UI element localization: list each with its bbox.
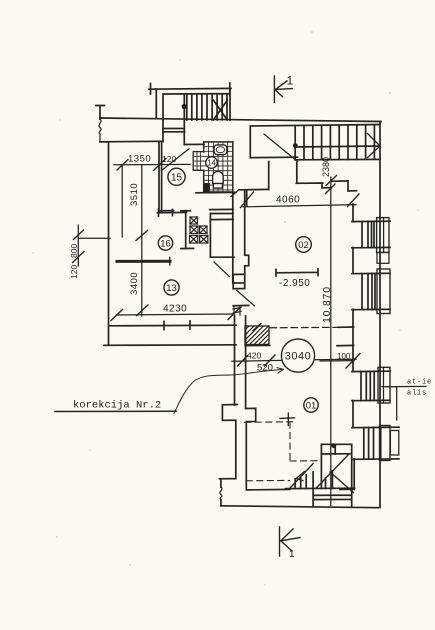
window W1 (352, 218, 390, 253)
wall center vertical double (233, 190, 249, 283)
left outer wall with break (96, 106, 105, 120)
stair base line (286, 487, 355, 489)
corridor verticals down (235, 316, 246, 409)
wall break squiggle (99, 119, 101, 142)
counter wall top (160, 209, 233, 210)
ticks on vertical dim (280, 176, 337, 426)
wall segment to bathroom (184, 143, 204, 145)
wall bottom room15 (158, 209, 187, 216)
room label 16 (158, 236, 172, 250)
kitchen counter rect (210, 214, 234, 258)
mid landing line (295, 146, 380, 147)
dashed layout lines room 01 (245, 422, 322, 481)
dim line 4060 (243, 205, 356, 207)
svg-text:120: 120 (162, 154, 176, 164)
inner wall segments (353, 204, 354, 489)
svg-text:420: 420 (247, 351, 261, 361)
stair walk diagonal (264, 134, 298, 162)
svg-text:4230: 4230 (163, 304, 187, 315)
bottom outer wall (221, 506, 378, 508)
tick on dashed (253, 324, 261, 331)
long north wall (100, 118, 381, 122)
svg-text:-2.950: -2.950 (279, 278, 310, 289)
wall below window4 (340, 488, 354, 490)
partition wall thick (117, 260, 170, 263)
dim ticks 4060 (241, 192, 360, 208)
dim line 3040 row (232, 359, 356, 361)
stair block walls (250, 125, 380, 158)
room label 13 (164, 280, 179, 295)
toilet (213, 171, 224, 183)
landing double lines (163, 129, 185, 132)
stair diagonals (290, 454, 354, 493)
dashed reference line (270, 326, 338, 329)
svg-text:520: 520 (257, 363, 273, 374)
svg-text:02: 02 (298, 240, 309, 251)
washbasin (214, 145, 227, 155)
svg-text:alis: alis (407, 390, 427, 398)
kitchen door swing (214, 262, 229, 277)
room label 01 (304, 398, 318, 412)
dim line 4230 (117, 314, 234, 315)
south wall outer (104, 344, 236, 347)
svg-text:16: 16 (160, 239, 171, 250)
dim ticks 4230 (111, 309, 239, 321)
step wall right of corridor (246, 408, 290, 490)
level mark -2.950 (276, 269, 318, 276)
section mark bottom (280, 527, 301, 556)
hatched pier (245, 326, 270, 346)
dim vertical 3510 (121, 165, 123, 237)
svg-text:120: 120 (69, 265, 79, 279)
counter left wall (181, 211, 194, 249)
stair cut cross (213, 100, 227, 120)
svg-text:4060: 4060 (276, 195, 300, 206)
pier box W1-W2 (377, 253, 389, 264)
svg-text:3400: 3400 (129, 272, 140, 295)
svg-text:1: 1 (287, 74, 294, 88)
newel post dot (182, 104, 187, 109)
wall left of room02 top (240, 189, 269, 206)
wall bottom piece (233, 273, 245, 275)
wall verticals below stair (163, 120, 184, 145)
svg-text:at-ie: at-ie (407, 379, 432, 387)
south wall inner (110, 321, 236, 330)
dim vertical 3400 chain (141, 165, 143, 316)
scan specks (32, 31, 418, 586)
korekcija underline (55, 410, 176, 412)
door jamb hatch (233, 306, 241, 315)
stair bottom right part (295, 158, 380, 160)
room label 02 (296, 237, 312, 253)
tile grid (204, 142, 233, 192)
svg-text:3510: 3510 (129, 183, 140, 206)
svg-text:01: 01 (306, 401, 317, 412)
svg-text:1350: 1350 (128, 154, 151, 165)
dim tick (117, 159, 166, 171)
stair chevron (368, 134, 381, 158)
svg-text:10.870: 10.870 (321, 286, 333, 323)
niche ticks (337, 327, 354, 346)
wall y141.5 (100, 140, 161, 143)
door jamb tick (231, 190, 239, 197)
door jamb solid (204, 183, 210, 192)
window W4 (352, 426, 399, 461)
leader to note text (382, 386, 426, 420)
wall below bathroom (196, 191, 236, 193)
dim 100 line (320, 360, 354, 362)
svg-text:2380: 2380 (321, 157, 331, 177)
dim 120x800 line (78, 225, 110, 266)
duct niche (233, 275, 245, 289)
room label 14 (206, 157, 218, 169)
window W3 (352, 367, 390, 403)
outer wall long vertical (379, 122, 381, 508)
landing walls below (269, 162, 357, 192)
stair treads bottom (295, 471, 332, 488)
svg-text:14: 14 (207, 159, 216, 168)
svg-text:korekcija Nr.2: korekcija Nr.2 (73, 400, 161, 412)
stair treads upper-left (184, 94, 227, 120)
svg-text:15: 15 (171, 173, 183, 184)
dim tick on chain (136, 231, 148, 316)
door lintel and swing (233, 304, 249, 306)
wall break squiggle bottom (220, 487, 222, 500)
dim line 1350/120 (114, 163, 190, 165)
room label 15 (168, 168, 185, 185)
dim vertical 2380 / 10.870 (330, 177, 332, 506)
lower double steps (313, 488, 352, 506)
stair hall rect upper-left stair U2 (156, 89, 230, 120)
svg-text:13: 13 (166, 283, 177, 294)
wall tick (100, 141, 109, 143)
svg-text:100: 100 (337, 352, 351, 361)
leader curve korekcija (174, 369, 284, 413)
door swing room15 (162, 149, 190, 171)
appliance boxes with X (190, 217, 208, 243)
svg-text:1: 1 (289, 549, 295, 560)
ticks 420/520 (238, 355, 276, 366)
circle 3040 (281, 339, 314, 372)
tick 100 (346, 354, 360, 369)
window W2 (352, 269, 390, 314)
stair core rect (321, 444, 351, 488)
svg-text:3040: 3040 (285, 351, 311, 363)
wall top cap line (149, 83, 231, 94)
ticks 800 (73, 230, 85, 263)
annex tiled nook (193, 152, 204, 171)
newel dot (293, 143, 298, 148)
stair treads right (295, 125, 374, 160)
arrowhead (296, 472, 305, 481)
bathroom outer walls (204, 142, 233, 192)
wall double vertical room15 (159, 142, 162, 213)
svg-text:800: 800 (69, 244, 79, 258)
left wall long vertical (108, 142, 110, 345)
section mark top (274, 76, 292, 102)
